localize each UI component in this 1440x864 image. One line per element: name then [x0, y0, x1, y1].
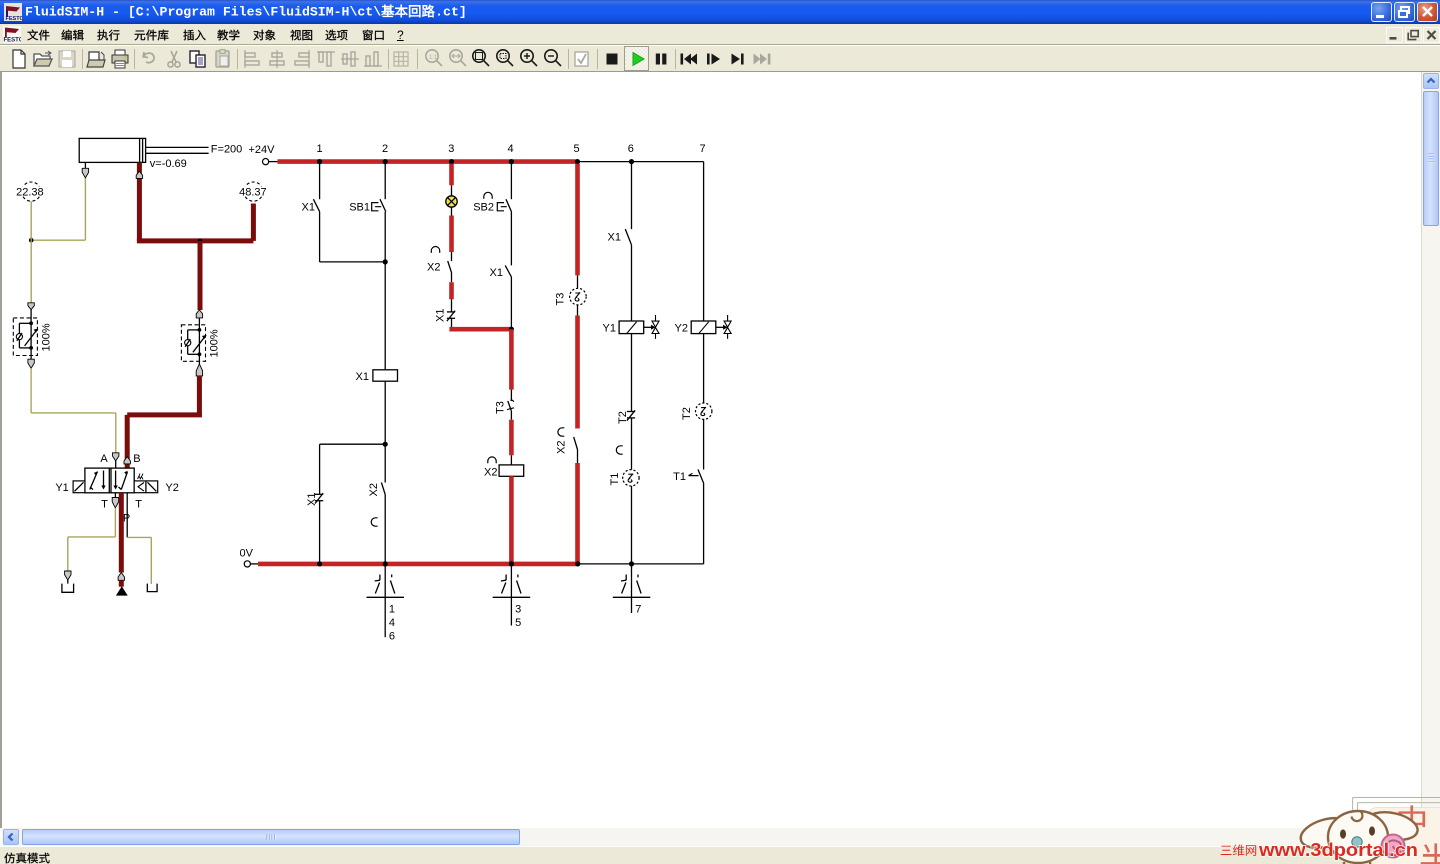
svg-text:6: 6	[628, 143, 634, 155]
contact X2 make with marker (column 3)	[427, 247, 451, 274]
label v=-0.69	[150, 158, 187, 170]
wire column 4 segment	[510, 411, 512, 465]
wire cylinder left port (olive)	[31, 162, 85, 240]
svg-text:P: P	[123, 512, 130, 524]
flow arrow P	[118, 573, 124, 587]
wire column 6 upper	[631, 162, 633, 230]
svg-text:X1: X1	[608, 232, 621, 244]
wire bottom rail energized	[258, 562, 578, 567]
svg-text:www.3dportal.cn: www.3dportal.cn	[1258, 839, 1418, 860]
svg-text:X2: X2	[368, 483, 380, 496]
cylinder (double acting)	[79, 138, 208, 162]
svg-text:X2: X2	[427, 261, 440, 273]
pressure source	[116, 586, 128, 595]
wire column 4 to junction	[510, 277, 512, 329]
label P	[123, 512, 130, 524]
svg-text:3: 3	[515, 604, 521, 616]
wire column 4 energized segment	[509, 329, 514, 401]
svg-text:SB2: SB2	[473, 201, 494, 213]
pushbutton SB1 break contact	[349, 199, 386, 213]
svg-text:X2: X2	[484, 467, 497, 479]
svg-text:5: 5	[573, 143, 579, 155]
contact X1 make (column 6)	[608, 229, 632, 245]
tank left	[62, 580, 74, 592]
flow arrow port B	[124, 457, 130, 464]
wire valve T left to tank (olive)	[68, 493, 119, 571]
wire column 7 to 0V	[703, 483, 705, 564]
solenoid box Y1 (left)	[73, 481, 85, 493]
contact X2 make with marker (column 2)	[368, 483, 385, 497]
svg-text:4: 4	[389, 617, 395, 629]
svg-text:T3: T3	[555, 293, 567, 306]
junction hydraulic right	[198, 239, 203, 244]
wire branch column 2 to column 1 lower	[320, 444, 386, 494]
svg-text:T3: T3	[495, 401, 507, 414]
wire column 4 middle	[510, 212, 512, 266]
svg-text:5: 5	[515, 617, 521, 629]
solenoid valve coil Y2	[675, 315, 732, 339]
wire flow valve left to valve port A (olive)	[31, 368, 116, 453]
wire valve T right to tank (olive)	[127, 493, 151, 584]
wire column 1 lower to 0V	[319, 501, 321, 564]
wire column 7 segment	[703, 334, 705, 403]
wire column 5 to 0V energized	[577, 450, 579, 564]
svg-text:A: A	[100, 453, 108, 465]
wire column 3 segment 2	[451, 207, 453, 261]
flow control valve left (one-way, 100%)	[13, 303, 52, 369]
solenoid box Y2 (right)	[134, 481, 158, 493]
svg-text:Y1: Y1	[55, 482, 68, 494]
wire column 2 lower	[383, 381, 388, 482]
svg-text:X1: X1	[356, 371, 369, 383]
svg-text:X2: X2	[556, 441, 568, 454]
svg-text:T2: T2	[681, 407, 693, 420]
wire column 3 segment 3	[451, 273, 453, 312]
wire column 4 upper	[510, 162, 512, 200]
wire column 2 middle	[383, 212, 388, 370]
svg-text:0V: 0V	[240, 548, 254, 560]
svg-text:4: 4	[508, 143, 514, 155]
wire column 1 upper	[319, 162, 321, 200]
wire column 5 upper energized	[575, 164, 580, 289]
junction dots top rail	[317, 159, 634, 164]
pushbutton SB2 make contact with marker	[473, 192, 511, 213]
svg-text:X1: X1	[306, 493, 318, 506]
wire column 6 middle	[631, 245, 633, 321]
contact image labels column 4 (3,5)	[493, 564, 531, 629]
timer relay T2 coil	[681, 403, 712, 420]
wire top rail right	[578, 161, 704, 163]
pressure gauge 22.38	[16, 182, 44, 240]
wire column 6 to 0V	[631, 486, 633, 564]
wire column 6 segment	[631, 334, 633, 412]
valve right position arrows (active)	[113, 471, 127, 490]
svg-text:T2: T2	[617, 411, 629, 424]
svg-text:Y2: Y2	[675, 323, 688, 335]
node 0V supply rail	[240, 548, 259, 568]
label Y2 (valve)	[165, 482, 178, 494]
contact T1 break (column 7)	[673, 419, 703, 483]
contact X2 make with marker (column 5)	[556, 428, 578, 454]
svg-text:F=200: F=200	[211, 144, 243, 156]
pressure gauge 48.37	[238, 182, 268, 241]
switch-off delay marker column 2	[371, 518, 377, 526]
svg-text:6: 6	[389, 631, 395, 643]
svg-text:T: T	[101, 499, 108, 511]
timer relay T1 coil	[609, 418, 639, 486]
flow arrow cylinder right port	[136, 171, 142, 178]
flow control valve right (one-way, 100%)	[181, 310, 220, 376]
svg-text:T1: T1	[673, 471, 686, 483]
label T right	[135, 499, 142, 511]
svg-text:7: 7	[700, 143, 706, 155]
label F=200	[211, 144, 243, 156]
relay coil X1	[356, 370, 398, 383]
svg-text:22.38: 22.38	[16, 186, 44, 198]
label T left	[101, 499, 108, 511]
svg-text:100%: 100%	[209, 329, 221, 357]
svg-text:7: 7	[635, 604, 641, 616]
timer relay T3 coil	[555, 288, 587, 305]
svg-text:X1: X1	[302, 201, 315, 213]
svg-text:B: B	[133, 453, 140, 465]
svg-text:Y2: Y2	[165, 482, 178, 494]
wire cylinder right port (pressure dark red)	[137, 162, 254, 241]
svg-text:T: T	[135, 499, 142, 511]
wire junction to flow valve right (dark red)	[198, 241, 203, 310]
junction hydraulic left	[29, 238, 34, 243]
wire valve P to pressure source (dark red)	[119, 493, 124, 573]
svg-text:Y1: Y1	[603, 323, 616, 335]
svg-text:X1: X1	[490, 267, 503, 279]
contact X1 break (column 3)	[435, 309, 456, 322]
flow arrow tank left	[65, 571, 71, 580]
svg-text:T1: T1	[609, 473, 621, 486]
wire top rail energized	[278, 159, 578, 164]
flow arrow cylinder left port	[82, 168, 88, 178]
switch-off delay marker column 6	[616, 446, 622, 454]
wire column 5 middle	[577, 305, 579, 429]
valve left position arrows	[90, 471, 106, 490]
spring/heat marker above valve	[138, 474, 144, 480]
wire column 4 to 0V	[509, 476, 514, 564]
flow arrow port A	[113, 453, 119, 468]
node +24V supply rail	[249, 144, 278, 165]
directional valve 4/2 body	[85, 468, 134, 493]
contact image labels column 6 (7)	[613, 564, 651, 616]
svg-text:+24V: +24V	[249, 144, 276, 156]
wire column 2 to 0V	[384, 495, 386, 564]
wire column 3 upper energized	[449, 164, 454, 196]
svg-text:1: 1	[389, 604, 395, 616]
svg-text:SB1: SB1	[349, 201, 370, 213]
contact X1 make (column 1)	[302, 199, 320, 213]
label A	[100, 453, 108, 465]
wire flow valve right to valve port B (dark red)	[127, 376, 202, 468]
tank right	[147, 584, 157, 592]
relay coil X2 with marker	[484, 457, 524, 479]
svg-text:48.37: 48.37	[239, 186, 267, 198]
contact image labels column 2 (1,4,6)	[367, 564, 405, 643]
svg-text:1: 1	[316, 143, 322, 155]
indicator lamp (column 3)	[446, 196, 457, 207]
junction dots bottom rail	[317, 561, 634, 566]
svg-text:3: 3	[448, 143, 454, 155]
wire column 2 upper	[384, 162, 386, 200]
node column numbers 1-7	[316, 143, 705, 155]
label Y1 (valve)	[55, 482, 68, 494]
contact T2 break delayed (column 6)	[617, 410, 635, 424]
wire column 7	[703, 162, 705, 321]
contact X1 make (column 4)	[490, 265, 512, 279]
wire bottom rail right	[578, 563, 704, 565]
svg-text:v=-0.69: v=-0.69	[150, 158, 187, 170]
wire column 3 to junction column 4	[449, 318, 514, 332]
svg-text:X1: X1	[435, 309, 447, 322]
svg-text:2: 2	[382, 143, 388, 155]
wire gauge to flow valve (olive)	[30, 240, 32, 303]
wire column 1 to column 2	[320, 212, 386, 262]
contact T3 make delayed (column 4)	[495, 400, 515, 414]
svg-text:100%: 100%	[41, 323, 53, 351]
label B	[133, 453, 140, 465]
contact X1 break (column 1 lower)	[306, 493, 323, 506]
solenoid valve coil Y1	[603, 315, 659, 339]
